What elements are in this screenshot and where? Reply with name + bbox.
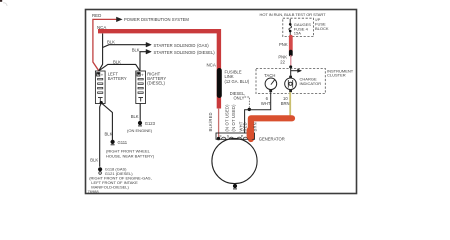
svg-text:BLOCK: BLOCK (315, 26, 329, 31)
svg-text:76988: 76988 (88, 189, 100, 194)
arrow branch inside cluster (291, 70, 298, 72)
generator BAT terminal highlighted (247, 130, 254, 136)
node NCA bus (thick red highlighted wire) (98, 31, 219, 108)
svg-text:15A: 15A (294, 31, 301, 36)
arrow starter solenoid (diesel) (146, 49, 151, 54)
battery B1 terminal dot (97, 72, 99, 74)
svg-text:STARTER SOLENOID: STARTER SOLENOID (154, 50, 196, 55)
pin below tach (269, 90, 272, 92)
svg-text:BATTERY: BATTERY (108, 76, 127, 81)
connector socket bumps (222, 137, 248, 139)
battery B2 (right) (136, 71, 146, 104)
pin above charge indicator (289, 76, 292, 78)
ground G121 (99, 172, 102, 175)
svg-text:+: + (101, 73, 104, 78)
svg-text:(DIESEL): (DIESEL) (147, 81, 165, 86)
svg-text:WHT: WHT (261, 101, 271, 106)
arrow to power distribution system (117, 17, 122, 21)
svg-text:+: + (141, 73, 144, 78)
svg-text:GENERATOR: GENERATOR (259, 136, 285, 141)
svg-text:G123: G123 (145, 121, 156, 126)
fuse pin dots (289, 23, 292, 26)
svg-text:BLK/RED: BLK/RED (208, 112, 213, 131)
splice S on PNK wire (289, 52, 293, 55)
svg-text:NCA: NCA (207, 63, 216, 68)
svg-text:(DIESEL): (DIESEL) (197, 50, 215, 55)
fusible link FL (217, 71, 222, 96)
wire RED/BRN highlighted path generator to cluster (251, 118, 292, 139)
wire BLK drop from NCA bus to batteries (99, 34, 103, 71)
I/P fuse block dashed box (283, 18, 314, 36)
svg-text:TACH: TACH (264, 73, 275, 78)
svg-text:22: 22 (280, 59, 285, 64)
ground G111 (111, 140, 115, 144)
svg-text:(ON ENGINE): (ON ENGINE) (127, 128, 153, 133)
wire BLK to starter solenoid (diesel) from right battery (140, 52, 146, 71)
svg-text:HOUSE, NEAR BATTERY): HOUSE, NEAR BATTERY) (106, 153, 155, 158)
svg-text:(N OT USED): (N OT USED) (224, 104, 229, 132)
svg-text:(GAS): (GAS) (197, 43, 209, 48)
wire BLK/RED from fusible link to generator F (218, 108, 220, 139)
ground G123 (138, 121, 142, 125)
wire from pin 22 into cluster (290, 67, 292, 78)
svg-text:POWER DISTRIBUTION SYSTEM: POWER DISTRIBUTION SYSTEM (124, 17, 189, 22)
junction dot on WHT wire (diesel only) (248, 108, 251, 111)
svg-text:PNK: PNK (279, 42, 288, 47)
pin 22 (289, 65, 292, 68)
svg-text:BRN: BRN (281, 101, 290, 106)
svg-text:BLK: BLK (90, 157, 98, 162)
svg-text:S: S (227, 135, 230, 139)
pin below charge indicator (289, 90, 292, 92)
svg-text:RED: RED (92, 13, 101, 18)
arrow starter solenoid (gas) (146, 42, 151, 47)
svg-text:CLUSTER: CLUSTER (327, 73, 346, 78)
wire RED to power distribution (93, 19, 121, 70)
wire BLK B1 negative to G118/G121 (100, 103, 102, 167)
wire BRN cluster pin10 down (289, 92, 291, 117)
svg-text:STARTER SOLENOID: STARTER SOLENOID (154, 43, 196, 48)
svg-text:BLK: BLK (131, 114, 139, 119)
svg-text:ONLY: ONLY (234, 96, 245, 101)
gauge TACH (265, 78, 277, 90)
junction dot at generator F terminal (217, 137, 220, 140)
svg-text:G111: G111 (118, 140, 128, 145)
wire BLK B1 negative to G111 (101, 103, 112, 140)
instrument cluster dashed box (256, 68, 325, 93)
wire WHT cluster pin6 to generator (245, 92, 271, 133)
wire BLK between battery positives (99, 64, 140, 70)
fuse F4 symbol (289, 19, 292, 37)
ground G118 (98, 167, 102, 171)
wire BLK to starter solenoid (gas) (103, 45, 146, 48)
leader from DIESEL ONLY to WHT wire junction (245, 97, 250, 108)
svg-text:NCA: NCA (97, 25, 106, 30)
corner artifact (0, 0, 2, 2)
wire PNK thin to cluster pin 22 (290, 55, 292, 66)
svg-text:BLK: BLK (113, 59, 121, 64)
svg-text:BLK: BLK (105, 132, 113, 137)
svg-text:(12 GA. BLU): (12 GA. BLU) (225, 79, 250, 84)
battery B1 (left) (95, 71, 105, 104)
generator connector box (216, 133, 255, 139)
generator G1 body (212, 138, 257, 183)
wire PNK highlighted from fuse (289, 37, 293, 51)
junction at B1 negative (100, 101, 103, 104)
ground at generator case (233, 184, 237, 188)
indicator CHARGE (bulb) (285, 78, 297, 90)
border frame (decorative) (86, 10, 357, 194)
svg-text:INDICATOR: INDICATOR (300, 81, 322, 86)
svg-text:BLK: BLK (132, 48, 140, 53)
wire BLK B2 negative to G123 (139, 104, 141, 121)
svg-text:(N OT USED): (N OT USED) (231, 104, 236, 132)
svg-text:BLK: BLK (107, 40, 115, 45)
battery B2 terminal dot (138, 72, 140, 74)
